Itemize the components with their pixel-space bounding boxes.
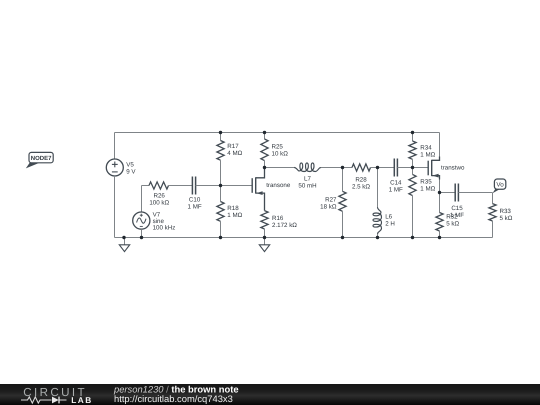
resistor R34 bbox=[412, 133, 414, 142]
resistor R32 bbox=[439, 193, 441, 213]
svg-text:http://circuitlab.com/cq743x3: http://circuitlab.com/cq743x3 bbox=[114, 393, 233, 404]
resistor R26 bbox=[142, 185, 150, 187]
logo resistor-diode squiggle bbox=[21, 397, 67, 403]
node Vo (flag) bbox=[493, 189, 500, 193]
inductor L6 bbox=[377, 168, 379, 208]
resistor R17 bbox=[220, 133, 222, 141]
svg-text:LAB: LAB bbox=[71, 395, 93, 405]
resistor R25 bbox=[264, 133, 266, 140]
footer bar bbox=[0, 384, 540, 405]
transistor transone (NMOS) bbox=[251, 178, 253, 193]
node NODE7 (flag) bbox=[26, 162, 40, 168]
inductor L7 bbox=[265, 167, 295, 169]
resistor R35 bbox=[412, 168, 414, 175]
capacitor C15 bbox=[440, 192, 456, 194]
wire: gate net of transtwo bbox=[413, 167, 429, 169]
resistor R28 bbox=[343, 167, 353, 169]
ground bbox=[124, 238, 126, 245]
resistor R18 bbox=[220, 186, 222, 202]
transistor transtwo (NMOS) bbox=[427, 161, 429, 176]
ground bbox=[264, 238, 266, 245]
junction dots bbox=[219, 131, 222, 134]
capacitor C14 bbox=[378, 167, 395, 169]
capacitor C10 bbox=[169, 185, 193, 187]
resistor R16 bbox=[264, 210, 266, 212]
wire: gate net of transone bbox=[221, 185, 253, 187]
source V7 (sine) bbox=[141, 186, 143, 213]
wire: bottom ground rail bbox=[115, 237, 493, 239]
resistor R27 bbox=[342, 168, 344, 192]
resistor R33 bbox=[492, 193, 494, 204]
wire: top supply rail bbox=[115, 132, 440, 134]
voltage source V5 bbox=[114, 133, 116, 160]
